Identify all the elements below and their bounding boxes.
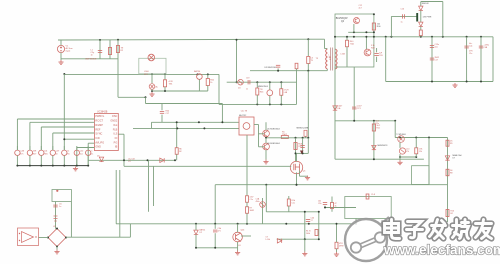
svg-text:R9: R9 xyxy=(450,143,452,145)
wire row6 up xyxy=(87,146,89,150)
wire rail corner xyxy=(309,38,325,40)
svg-text:DA: DA xyxy=(338,107,341,110)
wire V1 bottom xyxy=(60,53,62,60)
wire r21 gap xyxy=(246,202,248,206)
ground bus xyxy=(73,167,78,171)
diode D12 xyxy=(372,145,376,149)
watermark chinese characters xyxy=(385,220,492,239)
svg-text:C1B: C1B xyxy=(379,55,383,57)
node m4 xyxy=(203,127,205,129)
bridge U2 xyxy=(48,229,66,247)
svg-text:1n: 1n xyxy=(246,89,248,91)
wire comb4 h xyxy=(53,132,95,134)
svg-text:R4b: R4b xyxy=(260,92,263,94)
node low-src xyxy=(296,184,298,186)
wire d9 dn xyxy=(420,27,422,30)
node rail 335 xyxy=(334,36,336,38)
resistor RB2 xyxy=(175,148,178,155)
resistor L4B xyxy=(280,89,283,96)
wire tl v1b xyxy=(399,154,401,157)
wire bottom main xyxy=(116,223,356,225)
capacitor row4 xyxy=(62,150,67,155)
wire gate line xyxy=(124,165,291,167)
node rail 391.4 xyxy=(390,36,392,38)
node rail 442.8 xyxy=(442,36,444,38)
transistor Q6 xyxy=(263,143,270,150)
wire mosfet src xyxy=(299,171,301,177)
wire row2 up xyxy=(40,146,42,150)
wire row4 up xyxy=(63,146,65,150)
op-amp U1 UC3842B box xyxy=(94,114,118,151)
wire LED to bus xyxy=(151,89,153,91)
svg-text:DR MUR160: DR MUR160 xyxy=(265,67,278,69)
svg-text:10: 10 xyxy=(329,59,331,61)
node cl1 xyxy=(304,238,306,240)
wire src down xyxy=(296,172,298,184)
wire c1b h xyxy=(325,207,356,209)
resistor R clamp xyxy=(295,63,298,69)
node b6 xyxy=(308,223,310,225)
svg-text:C1z: C1z xyxy=(469,53,472,55)
svg-text:1u: 1u xyxy=(59,206,61,208)
diode D9 xyxy=(419,22,423,26)
resistor R21 xyxy=(246,196,249,203)
node s2 xyxy=(302,152,304,154)
watermark logo circle xyxy=(345,217,389,261)
svg-text:TCMT4600: TCMT4600 xyxy=(396,134,405,136)
node ladb3 xyxy=(280,103,282,105)
wire out2 xyxy=(466,37,468,82)
wire o3 v xyxy=(428,138,430,185)
svg-text:1-10k: 1-10k xyxy=(265,239,270,241)
svg-text:1T: 1T xyxy=(311,220,314,222)
svg-text:1n: 1n xyxy=(91,153,93,155)
node b4 xyxy=(246,223,248,225)
node ab1 xyxy=(151,90,153,92)
wire r1b down xyxy=(288,206,290,212)
resistor R snub2 xyxy=(307,57,310,64)
wire c17 up xyxy=(161,104,163,111)
node rail 420.8 xyxy=(420,36,422,38)
node rail 481 xyxy=(480,36,482,38)
node cl t2 xyxy=(318,211,320,213)
svg-text:Q6 MJE18004: Q6 MJE18004 xyxy=(267,143,281,145)
wire c1b down xyxy=(324,206,326,208)
node drain xyxy=(307,137,309,139)
wire ladder bottom xyxy=(219,103,297,105)
wire row1 down xyxy=(29,156,31,166)
node bx3 xyxy=(373,31,375,33)
resistor TN1 xyxy=(163,80,166,87)
wire gate chain xyxy=(295,138,297,162)
wire r13 dn xyxy=(415,154,417,157)
wire lad v2 xyxy=(269,82,271,89)
wire aux row xyxy=(227,81,297,83)
wire q6 link xyxy=(265,138,267,143)
wire primary bottom xyxy=(326,69,328,71)
op-amp U3 box xyxy=(18,228,39,246)
node q1 xyxy=(265,137,267,139)
wire r40 dn xyxy=(346,47,348,67)
svg-text:Q4: Q4 xyxy=(341,21,345,23)
node br-t xyxy=(56,228,58,230)
wire aux bus xyxy=(152,90,208,92)
wire rclamp dn xyxy=(296,69,298,71)
node o1 xyxy=(399,137,401,139)
svg-text:C1-8: C1-8 xyxy=(371,194,375,196)
wire R2 leg xyxy=(117,40,119,98)
wire opto h xyxy=(266,211,319,213)
capacitor C1 xyxy=(98,51,102,53)
node rail drop xyxy=(236,39,238,41)
wire cl v1 xyxy=(304,212,306,239)
op-amp U3 triangle xyxy=(22,232,34,243)
wire mosfet drain xyxy=(296,153,298,161)
resistor R16 xyxy=(446,210,449,217)
wire fb low xyxy=(335,158,424,160)
node rail 353.9 xyxy=(353,36,355,38)
op-amp U3 pins xyxy=(19,233,37,241)
svg-text:UC3842B: UC3842B xyxy=(97,111,108,114)
wire sec trunk2 xyxy=(353,67,355,121)
wire vcc v2 xyxy=(221,104,223,123)
node rail-C1 xyxy=(99,39,101,41)
wire row5 up xyxy=(76,146,78,150)
node g4 xyxy=(480,81,482,83)
wire mid rail xyxy=(64,73,219,75)
AC source V1 xyxy=(57,45,64,52)
node m5 xyxy=(221,121,223,123)
svg-text:input: input xyxy=(66,49,71,52)
resistor R56 xyxy=(372,124,375,131)
svg-text:C2A: C2A xyxy=(256,197,260,200)
svg-text:PWRVL: PWRVL xyxy=(95,115,104,118)
resistor R17 xyxy=(366,194,369,199)
svg-text:C1x: C1x xyxy=(292,203,295,205)
resistor R06 xyxy=(372,23,375,30)
wire r13 up xyxy=(415,138,417,148)
wire r49 dn xyxy=(336,249,338,252)
wire c16 line xyxy=(391,15,417,17)
node lad2 xyxy=(269,81,271,83)
svg-text:SYNC: SYNC xyxy=(95,133,102,136)
diode D2 xyxy=(194,230,198,234)
wire gnd rail right xyxy=(386,81,493,83)
wire R1 leg xyxy=(109,40,111,59)
wire box h1 xyxy=(348,31,374,33)
capacitor row1 xyxy=(27,150,32,155)
wire tx2 down xyxy=(246,135,248,195)
wire r47 up xyxy=(331,197,333,203)
node ladb2 xyxy=(269,103,271,105)
wire row1 up xyxy=(29,146,31,150)
wire opamp-bridge xyxy=(39,237,49,239)
wire AC bottom xyxy=(61,58,118,60)
svg-text:BC253QAT: BC253QAT xyxy=(336,17,349,20)
wire top rail xyxy=(58,38,309,41)
node g3 xyxy=(466,81,468,83)
ground q6 xyxy=(263,160,268,164)
svg-text:R1x: R1x xyxy=(376,123,379,125)
wire r40 up xyxy=(346,37,348,40)
resistor R13 xyxy=(415,148,418,154)
svg-text:C4x: C4x xyxy=(469,46,472,48)
wire drain v xyxy=(307,138,309,154)
wire c9b up xyxy=(214,224,216,229)
svg-text:49R9: 49R9 xyxy=(339,246,344,248)
wire clamp leg snub2 xyxy=(307,64,309,71)
wire vert68 xyxy=(70,202,72,238)
svg-text:MMA CMd: MMA CMd xyxy=(453,154,462,157)
capacitor C19 xyxy=(248,80,250,84)
wire out3 xyxy=(480,37,482,82)
node bus1 xyxy=(29,165,31,167)
wire cl v2 xyxy=(318,212,320,239)
svg-text:FLB: FLB xyxy=(113,128,118,131)
wire d2 down xyxy=(195,235,197,248)
wire lad v3b xyxy=(280,95,282,104)
wire vcc v1 xyxy=(145,97,147,103)
wire fb v2 low xyxy=(119,170,121,237)
wire bridge up xyxy=(129,224,131,237)
svg-text:ILS: ILS xyxy=(114,133,118,136)
wire r49 up xyxy=(336,224,338,242)
node cl t1 xyxy=(304,211,306,213)
wire r04 dn xyxy=(420,36,422,37)
wire row4 down xyxy=(63,156,65,166)
resistor R08 xyxy=(294,143,297,150)
transformer TX2 winding xyxy=(243,123,250,130)
diode D13 xyxy=(277,239,281,243)
node bx2 xyxy=(365,31,367,33)
node rail-led xyxy=(151,73,153,75)
svg-text:Q1: Q1 xyxy=(303,171,307,173)
svg-text:MMSZ4678: MMSZ4678 xyxy=(378,145,388,147)
wire fb v1 xyxy=(115,170,117,224)
svg-text:BAT54: BAT54 xyxy=(200,229,206,232)
wire brb v xyxy=(355,219,357,224)
ground bridge xyxy=(54,250,59,254)
box aux regulator xyxy=(335,14,374,67)
node br-r xyxy=(65,237,67,239)
node rail drop b xyxy=(236,81,238,83)
node cclamp xyxy=(277,70,279,72)
connector J1 pin mark xyxy=(56,190,58,192)
node vcc1 xyxy=(145,96,147,98)
node bus6 xyxy=(87,165,89,167)
capacitor row2 xyxy=(39,150,44,155)
svg-text:GND2: GND2 xyxy=(110,120,118,123)
wire fb h1 xyxy=(335,120,395,122)
transistor Q3 xyxy=(197,74,203,80)
svg-text:450n: 450n xyxy=(256,201,260,203)
node m3 xyxy=(176,127,178,129)
wire q-bus xyxy=(266,137,308,139)
svg-text:ICD: ICD xyxy=(95,137,100,140)
node bus3 xyxy=(52,165,54,167)
diode D5 xyxy=(99,157,103,161)
capacitor C13 xyxy=(430,46,434,48)
diode D zener xyxy=(267,90,273,96)
svg-text:BAT54: BAT54 xyxy=(194,70,201,73)
node trunk-ic xyxy=(63,138,65,140)
node rail 373.9 xyxy=(373,36,375,38)
node rail 432 xyxy=(431,36,433,38)
svg-text:C4x TN: C4x TN xyxy=(241,110,248,112)
svg-text:B2: B2 xyxy=(179,151,181,153)
svg-text:1u5: 1u5 xyxy=(80,153,83,155)
wire vcc rail right xyxy=(335,36,493,38)
wire c18 dn xyxy=(376,57,378,62)
op-amp TL431 U6 xyxy=(399,148,405,154)
diode Z1 xyxy=(304,130,307,136)
wire tx2 q5c xyxy=(259,133,265,135)
node ab2 xyxy=(164,90,166,92)
wire bridge out xyxy=(66,236,130,238)
resistor R5 xyxy=(281,136,288,139)
wire c2a leg xyxy=(262,198,264,224)
node o2 xyxy=(415,137,417,139)
wire tl v1 xyxy=(399,142,401,148)
wire c6 leg xyxy=(55,202,57,229)
wire src-gnd xyxy=(300,175,308,177)
svg-text:R11: R11 xyxy=(377,128,380,130)
wire fbpair1 xyxy=(148,160,150,212)
wire comb2 v xyxy=(29,122,31,150)
node m1 xyxy=(176,121,178,123)
wire r176 v2 xyxy=(176,154,178,160)
svg-text:Q2b: Q2b xyxy=(241,230,246,232)
svg-text:TN1: TN1 xyxy=(169,84,174,86)
transformer TX2 box xyxy=(239,117,254,135)
node g2 xyxy=(431,81,433,83)
wire cl gnd leg xyxy=(304,239,306,251)
node xfmr top xyxy=(307,38,309,40)
ground q2 xyxy=(235,251,240,255)
wire primary down xyxy=(307,71,309,138)
svg-text:RGMP: RGMP xyxy=(95,124,103,127)
wire under-ic xyxy=(88,159,175,161)
svg-text:100k: 100k xyxy=(306,233,310,235)
wire opto drop xyxy=(265,185,267,212)
node b1 xyxy=(195,223,197,225)
wire mid h1 xyxy=(152,121,240,123)
svg-text:1N4148: 1N4148 xyxy=(422,3,430,5)
wire aux 386 xyxy=(385,37,387,82)
capacitor C clamp xyxy=(276,65,280,67)
wire row0 up xyxy=(16,146,18,150)
wire rcol xyxy=(447,138,449,223)
svg-text:12k: 12k xyxy=(419,151,422,153)
ground cl xyxy=(302,252,307,256)
capacitor row5 xyxy=(74,150,79,155)
wire q2 top xyxy=(237,224,239,232)
wire row0 down xyxy=(16,156,18,166)
svg-text:IB: IB xyxy=(115,146,118,149)
wire lad v1 xyxy=(256,82,258,88)
wire lad v4 xyxy=(296,71,298,105)
connector J1 xyxy=(52,190,71,202)
node r49 xyxy=(336,223,338,225)
node f2 xyxy=(373,120,375,122)
wire low v xyxy=(214,185,216,224)
svg-text:C16: C16 xyxy=(401,9,404,11)
wire zener leg xyxy=(164,74,166,80)
node primary xyxy=(307,70,309,72)
transistor Q5 xyxy=(263,130,270,137)
node bus2 xyxy=(40,165,42,167)
wire lad v3 xyxy=(280,82,282,88)
wire trunk xyxy=(63,74,65,150)
svg-text:G1: G1 xyxy=(238,245,242,247)
resistor R1 xyxy=(108,48,111,55)
ground AC xyxy=(58,60,63,64)
power flag 13V2 xyxy=(416,13,418,22)
node box tr xyxy=(373,13,375,15)
svg-text:OSC: OSC xyxy=(112,115,118,118)
wire xfmr right lead xyxy=(324,39,326,48)
op-amp U1 pin labels xyxy=(95,115,118,148)
svg-text:R0B: R0B xyxy=(371,48,375,50)
svg-text:CMP MODE: CMP MODE xyxy=(85,59,97,61)
wire tl bus xyxy=(400,156,416,158)
svg-text:Out: Out xyxy=(113,124,117,127)
node c1b xyxy=(324,207,326,209)
resistor R49 xyxy=(335,242,338,249)
node t2 xyxy=(415,156,417,158)
wire row3 down xyxy=(52,156,54,166)
wire r21 up xyxy=(246,194,248,197)
capacitor C20 xyxy=(300,146,304,148)
capacitor row6 xyxy=(86,150,91,155)
wire tx2 q6 xyxy=(259,146,265,148)
node fl1 xyxy=(373,158,375,160)
node b2 xyxy=(214,223,216,225)
wire V1 top xyxy=(60,40,62,45)
wire xfmr top jog xyxy=(325,48,328,50)
node low1 xyxy=(265,184,267,186)
svg-text:LA: LA xyxy=(155,86,158,89)
wire mid h2 xyxy=(133,127,239,129)
wire Q3 down xyxy=(198,79,200,91)
wire R62 top xyxy=(207,74,209,78)
wire d2 up xyxy=(195,224,197,230)
svg-text:R05: R05 xyxy=(44,153,47,155)
wire C1 leg xyxy=(99,40,101,59)
node brb xyxy=(355,223,357,225)
wire out drop xyxy=(123,134,125,166)
node rail 466.6 xyxy=(466,36,468,38)
wire vcc h2 xyxy=(146,103,223,105)
wire c9b down xyxy=(214,233,216,248)
node m2 xyxy=(198,121,200,123)
resistor R2 xyxy=(116,46,119,53)
node bus4 xyxy=(63,165,65,167)
node aux end xyxy=(256,81,258,83)
svg-text:C17: C17 xyxy=(166,113,171,115)
wire comb2 h xyxy=(30,121,95,123)
capacitor C1B xyxy=(323,203,327,205)
node u1 xyxy=(123,159,125,161)
resistor R5B xyxy=(315,230,318,236)
wire tx2 q5b xyxy=(258,125,260,147)
LED D3 xyxy=(149,84,155,90)
wire row3 up xyxy=(52,146,54,150)
resistor R40 xyxy=(346,40,349,47)
wire clamp top line xyxy=(250,70,327,72)
wire low line xyxy=(215,184,447,186)
wire vcc h1 xyxy=(118,96,146,98)
